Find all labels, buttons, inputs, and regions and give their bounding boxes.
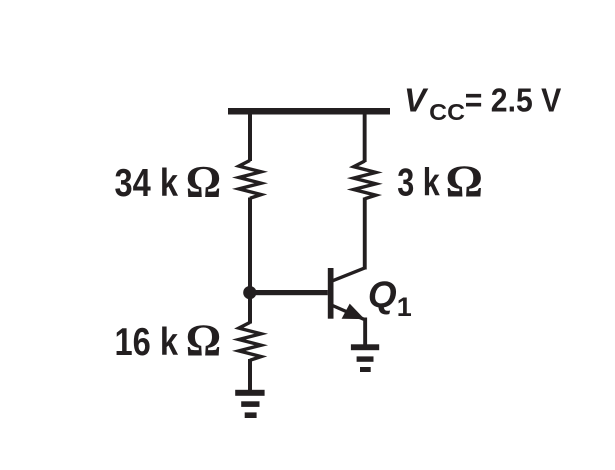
resistor R2 16k zigzag: [239, 322, 261, 360]
svg-text:34 k: 34 k: [115, 162, 179, 205]
svg-text:= 2.5 V: = 2.5 V: [465, 82, 562, 119]
svg-text:Ω: Ω: [186, 315, 221, 366]
resistor RC 3k zigzag: [354, 161, 376, 199]
wire base from node to transistor: [249, 290, 328, 295]
wire left branch R1 to R2 through node: [248, 198, 252, 324]
wire left branch from rail to R1: [248, 114, 252, 161]
svg-text:V: V: [404, 82, 429, 119]
wire left branch R2 to ground: [248, 359, 252, 390]
svg-text:16 k: 16 k: [115, 321, 179, 364]
VCC supply rail: [228, 108, 390, 115]
wire emitter vertical to ground: [363, 318, 367, 346]
node A junction dot: [243, 286, 256, 299]
transistor Q1 emitter arrow: [342, 304, 365, 320]
transistor Q1 emitter lead: [333, 306, 365, 320]
svg-text:1: 1: [397, 292, 412, 322]
svg-text:CC: CC: [429, 99, 465, 125]
resistor R1 34k zigzag: [239, 160, 261, 198]
ground symbol below R2: [235, 390, 264, 396]
svg-text:Ω: Ω: [446, 155, 484, 206]
transistor Q1 collector lead: [333, 268, 365, 281]
svg-text:3 k: 3 k: [397, 161, 440, 204]
wire right branch RC to collector corner: [363, 198, 367, 270]
svg-text:Ω: Ω: [186, 156, 221, 207]
ground symbol at emitter: [351, 344, 379, 350]
transistor Q1 base bar: [328, 268, 334, 319]
svg-text:Q: Q: [368, 274, 397, 315]
wire right branch from rail to RC: [363, 114, 367, 162]
